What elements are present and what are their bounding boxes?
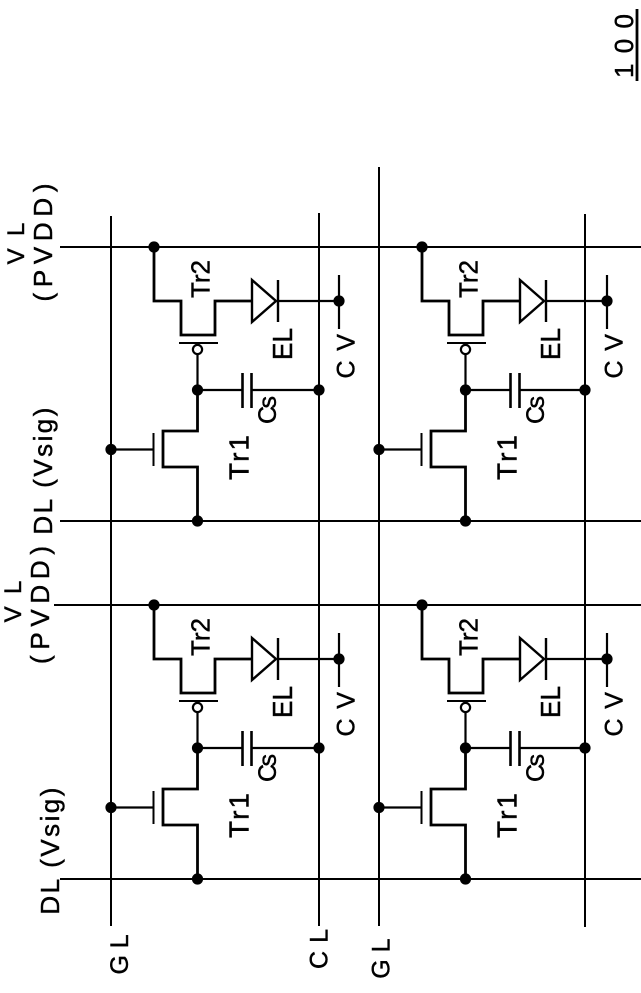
svg-text:Cs: Cs xyxy=(522,754,550,782)
wire: Cs bottom plate to CL pixel BL xyxy=(520,747,586,749)
junction dot on CV stub pixel TL xyxy=(333,653,344,664)
wire: Tr2-pixel BL gate to storage node xyxy=(464,712,466,748)
node: storage node dot (Tr1 drain / Tr2 gate / Cs) pixel BL xyxy=(460,742,471,753)
capacitor Cs (pixel TR) bottom plate xyxy=(250,373,253,408)
junction dot on DL for Tr1-pixel TR source xyxy=(192,515,203,526)
wire: node to Cs top plate pixel BL xyxy=(466,747,511,749)
wire: Tr2-pixel TR gate to storage node xyxy=(196,354,198,390)
capacitor Cs (pixel BR) top plate xyxy=(509,373,512,408)
capacitor Cs (pixel BL) bottom plate xyxy=(518,731,521,766)
svg-text:GL: GL xyxy=(368,938,396,978)
wire: EL-pixel TL cathode down across CL to CV tap xyxy=(278,658,339,660)
svg-text:Tr2: Tr2 xyxy=(186,618,216,656)
junction dot on DL for Tr1-pixel TL source xyxy=(192,873,203,884)
svg-text:Tr1: Tr1 xyxy=(492,793,523,838)
wire: CV supply stub pixel TL xyxy=(338,633,340,687)
diode EL (pixel TL) triangle (anode) xyxy=(252,638,276,680)
junction dot on CL for Cs pixel TR xyxy=(313,384,324,395)
diode EL (pixel TR) cathode bar xyxy=(277,280,279,322)
wire: node to Cs top plate pixel BR xyxy=(466,389,511,391)
svg-text:VL: VL xyxy=(3,223,30,265)
svg-text:(PVDD): (PVDD) xyxy=(25,546,55,664)
junction dot on GL for Tr1-pixel BL gate xyxy=(373,802,384,813)
svg-text:Tr2: Tr2 xyxy=(454,260,484,298)
junction dot on GL for Tr1-pixel BR gate xyxy=(373,444,384,455)
junction dot on VL for Tr2-pixel TR drain xyxy=(148,241,159,252)
diode EL (pixel BL) triangle (anode) xyxy=(520,638,544,680)
svg-text:EL: EL xyxy=(267,328,298,360)
svg-text:(PVDD): (PVDD) xyxy=(28,184,58,302)
svg-text:CV: CV xyxy=(601,334,629,379)
svg-text:Tr2: Tr2 xyxy=(454,618,484,656)
wire: gate line GL1 (top row) xyxy=(110,216,112,926)
junction dot on VL for Tr2-pixel BL drain xyxy=(416,599,427,610)
junction dot on CV stub pixel BR xyxy=(601,295,612,306)
wire: data line DL2 (left column) xyxy=(60,878,641,880)
svg-text:DL (Vsig): DL (Vsig) xyxy=(28,408,58,535)
transistor Tr2 (pixel BR) gate circle (p-ch) xyxy=(461,345,470,354)
svg-text:Tr1: Tr1 xyxy=(224,793,255,838)
junction dot on DL for Tr1-pixel BL source xyxy=(460,873,471,884)
capacitor Cs (pixel BR) bottom plate xyxy=(518,373,521,408)
wire: Tr1-pixel BL gate to GL xyxy=(379,806,422,808)
junction dot on VL for Tr2-pixel BR drain xyxy=(416,241,427,252)
transistor Tr2 (pixel BL) gate bar xyxy=(447,700,486,702)
transistor Tr1 (pixel BR) gate bar xyxy=(421,433,423,466)
wire: node to Cs top plate pixel TL xyxy=(198,747,243,749)
capacitor Cs (pixel BL) top plate xyxy=(509,731,512,766)
wire: data line DL1 (right column) xyxy=(60,520,641,522)
wire: power line VL1 (right column) xyxy=(60,246,641,248)
wire: common line CL2 (bottom row) xyxy=(584,214,586,927)
transistor Tr1 (pixel BL) gate bar xyxy=(421,791,423,824)
transistor Tr2 (pixel TL) gate circle (p-ch) xyxy=(193,703,202,712)
wire: CV supply stub pixel TR xyxy=(338,275,340,329)
junction dot on CL for Cs pixel BR xyxy=(579,384,590,395)
transistor Tr2 (pixel BL) gate circle (p-ch) xyxy=(461,703,470,712)
svg-text:EL: EL xyxy=(535,686,566,718)
wire: Tr1-pixel BR gate to GL xyxy=(379,448,422,450)
svg-text:Tr1: Tr1 xyxy=(224,435,255,480)
svg-text:CL: CL xyxy=(306,929,334,969)
wire: Tr2-pixel BL drain from VL to channel, channel bar, source lead to EL anode xyxy=(422,605,520,693)
diode EL (pixel BR) triangle (anode) xyxy=(520,280,544,322)
wire: Tr1-pixel BR source/drain leads and channel bar (DL to node) xyxy=(431,390,466,521)
wire: CV supply stub pixel BR xyxy=(606,275,608,329)
wire: Tr1-pixel TR gate to GL xyxy=(111,448,154,450)
wire: EL-pixel TR cathode down across CL to CV tap xyxy=(278,300,339,302)
svg-text:EL: EL xyxy=(267,686,298,718)
junction dot on CV stub pixel TR xyxy=(333,295,344,306)
wire: node to Cs top plate pixel TR xyxy=(198,389,243,391)
transistor Tr1 (pixel TL) gate bar xyxy=(153,791,155,824)
junction dot on DL for Tr1-pixel BR source xyxy=(460,515,471,526)
svg-text:Cs: Cs xyxy=(254,396,282,424)
wire: Cs bottom plate to CL pixel TR xyxy=(252,389,320,391)
transistor Tr2 (pixel TL) gate bar xyxy=(179,700,218,702)
wire: Tr2-pixel TL gate to storage node xyxy=(196,712,198,748)
capacitor Cs (pixel TL) top plate xyxy=(241,731,244,766)
transistor Tr1 (pixel TR) gate bar xyxy=(153,433,155,466)
wire: common line CL1 (top row) xyxy=(318,213,320,926)
wire: Cs bottom plate to CL pixel TL xyxy=(252,747,320,749)
diode EL (pixel TR) triangle (anode) xyxy=(252,280,276,322)
svg-text:Cs: Cs xyxy=(254,754,282,782)
wire: Cs bottom plate to CL pixel BR xyxy=(520,389,586,391)
wire: Tr1-pixel TR source/drain leads and channel bar (DL to node) xyxy=(163,390,198,521)
transistor Tr2 (pixel TR) gate circle (p-ch) xyxy=(193,345,202,354)
junction dot on CV stub pixel BL xyxy=(601,653,612,664)
wire: Tr1-pixel BL source/drain leads and channel bar (DL to node) xyxy=(431,748,466,879)
svg-text:Tr2: Tr2 xyxy=(186,260,216,298)
transistor Tr2 (pixel TR) gate bar xyxy=(179,342,218,344)
diode EL (pixel BR) cathode bar xyxy=(545,280,547,322)
node: storage node dot (Tr1 drain / Tr2 gate / Cs) pixel TR xyxy=(192,384,203,395)
svg-text:GL: GL xyxy=(106,934,134,974)
svg-text:CV: CV xyxy=(601,692,629,737)
wire: EL-pixel BL cathode down across CL to CV tap xyxy=(546,658,607,660)
wire: Tr1-pixel TL source/drain leads and channel bar (DL to node) xyxy=(163,748,198,879)
wire: Tr1-pixel TL gate to GL xyxy=(111,806,154,808)
svg-text:VL: VL xyxy=(0,581,27,623)
transistor Tr2 (pixel BR) gate bar xyxy=(447,342,486,344)
wire: Tr2-pixel BR drain from VL to channel, channel bar, source lead to EL anode xyxy=(422,247,520,335)
svg-text:Cs: Cs xyxy=(522,396,550,424)
svg-text:CV: CV xyxy=(333,692,361,737)
junction dot on GL for Tr1-pixel TL gate xyxy=(105,802,116,813)
junction dot on CL for Cs pixel BL xyxy=(579,742,590,753)
wire: gate line GL2 (bottom row) xyxy=(378,167,380,926)
node: storage node dot (Tr1 drain / Tr2 gate / Cs) pixel BR xyxy=(460,384,471,395)
wire: Tr2-pixel TR drain from VL to channel, channel bar, source lead to EL anode xyxy=(154,247,252,335)
junction dot on VL for Tr2-pixel TL drain xyxy=(148,599,159,610)
wire: Tr2-pixel TL drain from VL to channel, channel bar, source lead to EL anode xyxy=(154,605,252,693)
junction dot on CL for Cs pixel TL xyxy=(313,742,324,753)
capacitor Cs (pixel TL) bottom plate xyxy=(250,731,253,766)
wire: Tr2-pixel BR gate to storage node xyxy=(464,354,466,390)
svg-text:Tr1: Tr1 xyxy=(492,435,523,480)
underline of 100 xyxy=(636,9,639,81)
wire: EL-pixel BR cathode down across CL to CV tap xyxy=(546,300,607,302)
svg-text:EL: EL xyxy=(535,328,566,360)
svg-text:100: 100 xyxy=(609,14,639,78)
junction dot on GL for Tr1-pixel TR gate xyxy=(105,444,116,455)
capacitor Cs (pixel TR) top plate xyxy=(241,373,244,408)
svg-text:DL (Vsig): DL (Vsig) xyxy=(35,788,65,915)
diode EL (pixel TL) cathode bar xyxy=(277,638,279,680)
diode EL (pixel BL) cathode bar xyxy=(545,638,547,680)
svg-text:CV: CV xyxy=(333,334,361,379)
wire: CV supply stub pixel BL xyxy=(606,633,608,687)
wire: power line VL2 (left column) xyxy=(54,604,641,606)
node: storage node dot (Tr1 drain / Tr2 gate / Cs) pixel TL xyxy=(192,742,203,753)
